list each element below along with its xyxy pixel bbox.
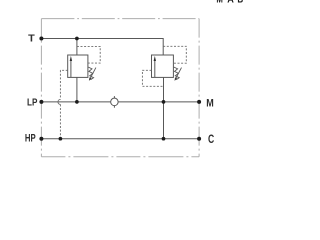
relief valve V1 flow arrow: [70, 59, 72, 77]
V2 pilot dashed line to outlet line: [142, 70, 163, 86]
manifold boundary top edge (dash-dot): [41, 18, 199, 20]
node junction V1/LP: [75, 100, 79, 104]
svg-text:T: T: [28, 34, 35, 45]
wire: V2 outlet line down through LP to HP: [163, 77, 165, 138]
wire: T rail with drop to right valve: [41, 39, 163, 56]
relief valve V2 envelope: [152, 55, 174, 77]
port LP node: [39, 100, 43, 104]
node junction T-rail / V1 drop: [75, 37, 79, 41]
svg-text:B: B: [237, 0, 243, 6]
svg-text:HP: HP: [25, 133, 36, 145]
wire: V1 bottom to LP: [76, 77, 78, 102]
relief valve V2 spring: [174, 67, 180, 80]
wire: LP rail (left of orifice): [41, 101, 110, 103]
wire: drop from T rail to left valve V1: [76, 39, 78, 56]
relief valve V2 flow arrow: [154, 59, 156, 77]
orifice/gauge circle on LP rail: [111, 96, 119, 108]
svg-text:M: M: [206, 98, 214, 110]
svg-text:LP: LP: [27, 96, 37, 108]
manifold boundary bottom edge (dash-dot): [41, 156, 199, 158]
svg-text:A: A: [227, 0, 234, 6]
node junction V1 pilot/HP: [59, 137, 63, 141]
port HP node: [39, 137, 43, 141]
relief valve V1 envelope: [68, 55, 88, 77]
svg-text:M: M: [216, 0, 223, 6]
V2 vent dashed line (top to spring side): [163, 46, 186, 63]
V1 pilot dashed line to HP with hop over LP: [60, 70, 67, 99]
relief valve V2 adjustment arrow: [176, 68, 182, 79]
relief valve V1 adjustment arrow: [90, 68, 96, 79]
port C node: [197, 137, 201, 141]
manifold boundary left edge (dash-dot): [40, 19, 42, 157]
port T node: [39, 37, 43, 41]
svg-text:C: C: [208, 132, 214, 146]
V1 vent dashed line (top to spring side): [77, 46, 100, 63]
manifold boundary right edge (dash-dot): [198, 19, 200, 157]
relief valve V1 spring: [88, 67, 94, 80]
port M node: [197, 100, 201, 104]
wire: LP rail (right of orifice): [118, 101, 199, 103]
node junction V2/LP: [162, 100, 166, 104]
hop over LP (no connection): [58, 99, 60, 104]
node junction V2 line/HP: [162, 137, 166, 141]
wire: HP rail: [41, 138, 199, 140]
